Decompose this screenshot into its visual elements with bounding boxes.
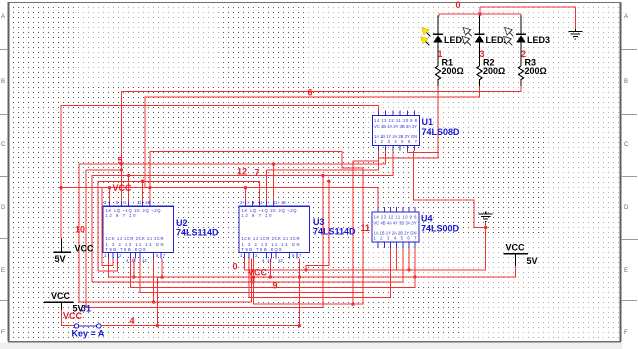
5V supply left top — [54, 239, 95, 265]
wire VCC left riser — [61, 106, 379, 239]
svg-text:14 13 12 11 10 9 8: 14 13 12 11 10 9 8 — [374, 215, 418, 220]
svg-text:VC 4B 4A 4Y 3B 3A 3Y: VC 4B 4A 4Y 3B 3A 3Y — [374, 221, 417, 226]
svg-text:E: E — [624, 268, 628, 274]
svg-text:LED3: LED3 — [527, 35, 550, 45]
darker dot regions — [9, 2, 75, 341]
wire y307.7 — [86, 307, 323, 309]
svg-text:4: 4 — [130, 316, 135, 326]
wire riser x322.9 — [322, 176, 324, 308]
U3 74LS114D — [239, 200, 356, 263]
wire U2 elbow pin3b — [98, 258, 118, 271]
svg-text:11: 11 — [273, 200, 278, 205]
svg-text:12 9 7 10: 12 9 7 10 — [106, 213, 137, 218]
wire U4 ground risers — [396, 248, 398, 270]
svg-text:5V: 5V — [55, 254, 66, 264]
svg-text:1CK 1J 1CR 2CK 2J 2CR: 1CK 1J 1CR 2CK 2J 2CR — [242, 236, 300, 241]
wire net6 R3 — [121, 86, 521, 170]
wire U3 pin8b long riser — [299, 258, 301, 325]
LED1 — [421, 16, 467, 67]
wire y292.6 — [140, 258, 363, 292]
svg-text:D: D — [624, 205, 629, 211]
wire riser x328.8 — [306, 181, 329, 270]
svg-text:B: B — [1, 79, 5, 85]
svg-text:74LS08D: 74LS08D — [422, 127, 461, 137]
resistor R3 — [518, 49, 546, 86]
LED3 — [504, 16, 550, 67]
svg-text:13: 13 — [281, 200, 286, 205]
wire net6 y170 segment — [86, 169, 122, 171]
wire y297.3 — [249, 248, 391, 297]
wire west bundle y175.5 — [92, 151, 393, 283]
svg-text:12: 12 — [278, 258, 283, 263]
svg-text:Key = A: Key = A — [72, 329, 105, 339]
svg-text:U2: U2 — [176, 218, 188, 228]
svg-text:B: B — [624, 79, 628, 85]
LED2 — [462, 16, 508, 67]
svg-text:U1: U1 — [422, 117, 434, 127]
svg-text:U3: U3 — [313, 217, 325, 227]
svg-text:VCC: VCC — [113, 183, 133, 193]
svg-text:1 2 3 4 5 6 7: 1 2 3 4 5 6 7 — [374, 139, 418, 144]
VCC bar left middle — [44, 291, 91, 321]
switch J1 — [74, 324, 101, 328]
svg-text:11: 11 — [137, 200, 142, 205]
svg-text:VC 4B 4A 4Y 3B 3A 3Y: VC 4B 4A 4Y 3B 3A 3Y — [374, 124, 417, 129]
svg-text:A: A — [624, 14, 628, 20]
svg-text:0: 0 — [456, 0, 461, 10]
svg-text:VCC: VCC — [63, 311, 83, 321]
svg-text:VCC: VCC — [75, 244, 95, 254]
svg-text:1 2 3 4 5 6 7: 1 2 3 4 5 6 7 — [374, 236, 418, 241]
wire key line y325.6 — [62, 309, 75, 326]
svg-text:200Ω: 200Ω — [483, 66, 505, 76]
svg-text:3: 3 — [480, 49, 485, 59]
wire VCC bottom rail y277.1 — [108, 254, 515, 278]
VCC bar right with 5V — [503, 243, 537, 267]
svg-text:12 9 7 10: 12 9 7 10 — [242, 213, 273, 218]
wire net0 top — [480, 6, 575, 8]
svg-text:9: 9 — [273, 280, 278, 290]
wire VCC rail y187.7 — [61, 188, 378, 207]
svg-text:U4: U4 — [421, 214, 433, 224]
svg-text:1CK 1J 1CR 2CK 2J 2CR: 1CK 1J 1CR 2CK 2J 2CR — [106, 236, 164, 241]
U1 74LS08D — [373, 110, 461, 150]
svg-text:200Ω: 200Ω — [442, 66, 464, 76]
svg-text:10: 10 — [75, 225, 85, 235]
svg-text:C: C — [1, 142, 6, 148]
svg-text:7: 7 — [255, 168, 260, 178]
border zone ticks — [0, 50, 638, 301]
svg-text:12: 12 — [237, 167, 247, 177]
ground top right — [568, 29, 582, 39]
svg-text:VCC: VCC — [506, 243, 526, 253]
wire west bundle y170 — [85, 170, 87, 308]
svg-text:13: 13 — [145, 200, 150, 205]
wire net R1 vertical — [379, 86, 438, 158]
wire U3 top pin risers — [245, 188, 247, 202]
svg-text:74LS00D: 74LS00D — [421, 224, 460, 234]
wire U2 top pin risers — [109, 188, 111, 202]
resistor R1 — [435, 49, 463, 86]
svg-text:F: F — [624, 330, 628, 336]
svg-text:74LS114D: 74LS114D — [176, 228, 219, 238]
svg-text:74LS114D: 74LS114D — [313, 227, 356, 237]
wire U1 to ground — [414, 151, 486, 228]
svg-text:E: E — [1, 268, 5, 274]
svg-text:11: 11 — [361, 223, 371, 233]
wire y282.2 — [92, 248, 403, 282]
wire net R2 — [145, 86, 480, 188]
wire VCC top distribution — [150, 152, 363, 305]
svg-text:A: A — [1, 14, 5, 20]
wire ground2 net0 line — [244, 222, 485, 270]
svg-text:5V: 5V — [527, 256, 538, 266]
svg-text:12: 12 — [142, 258, 147, 263]
svg-text:T5B T5B 8Q8: T5B T5B 8Q8 — [106, 247, 147, 252]
svg-text:8: 8 — [250, 275, 255, 285]
U4 74LS00D — [372, 207, 460, 248]
svg-text:T5B T5B 8Q8: T5B T5B 8Q8 — [242, 247, 283, 252]
svg-text:6: 6 — [308, 88, 313, 98]
outside sheet — [0, 343, 638, 349]
svg-text:14 13 12 11 10 9 8: 14 13 12 11 10 9 8 — [374, 118, 418, 123]
svg-text:J1: J1 — [81, 304, 91, 314]
svg-text:F: F — [1, 330, 5, 336]
wire U1 pin1 west line y161.2 to x353 riser — [353, 161, 379, 304]
svg-text:C: C — [624, 142, 629, 148]
wire y287.4 — [131, 248, 415, 288]
svg-text:VCC: VCC — [51, 291, 71, 301]
svg-text:2: 2 — [521, 49, 526, 59]
wire U1 pin1 down — [267, 151, 379, 202]
wire U2 pin7b riser — [153, 258, 155, 302]
svg-text:1: 1 — [438, 49, 443, 59]
ground middle — [479, 212, 493, 222]
svg-text:200Ω: 200Ω — [525, 66, 547, 76]
wire U2 elbow pin2b — [102, 188, 113, 266]
wire rail risers — [133, 258, 135, 277]
wire y302.1 — [79, 258, 251, 302]
resistor R2 — [477, 49, 505, 86]
U2 74LS114D — [103, 200, 219, 263]
svg-text:D: D — [1, 205, 6, 211]
svg-text:5: 5 — [118, 155, 123, 165]
svg-text:14: 14 — [267, 258, 272, 263]
wire west bundle y181.3 — [98, 181, 259, 271]
svg-text:0: 0 — [233, 262, 238, 272]
wire west bundle y164 — [79, 151, 386, 302]
svg-text:14: 14 — [131, 258, 136, 263]
wire U1 pin6 to R1 — [407, 151, 438, 153]
